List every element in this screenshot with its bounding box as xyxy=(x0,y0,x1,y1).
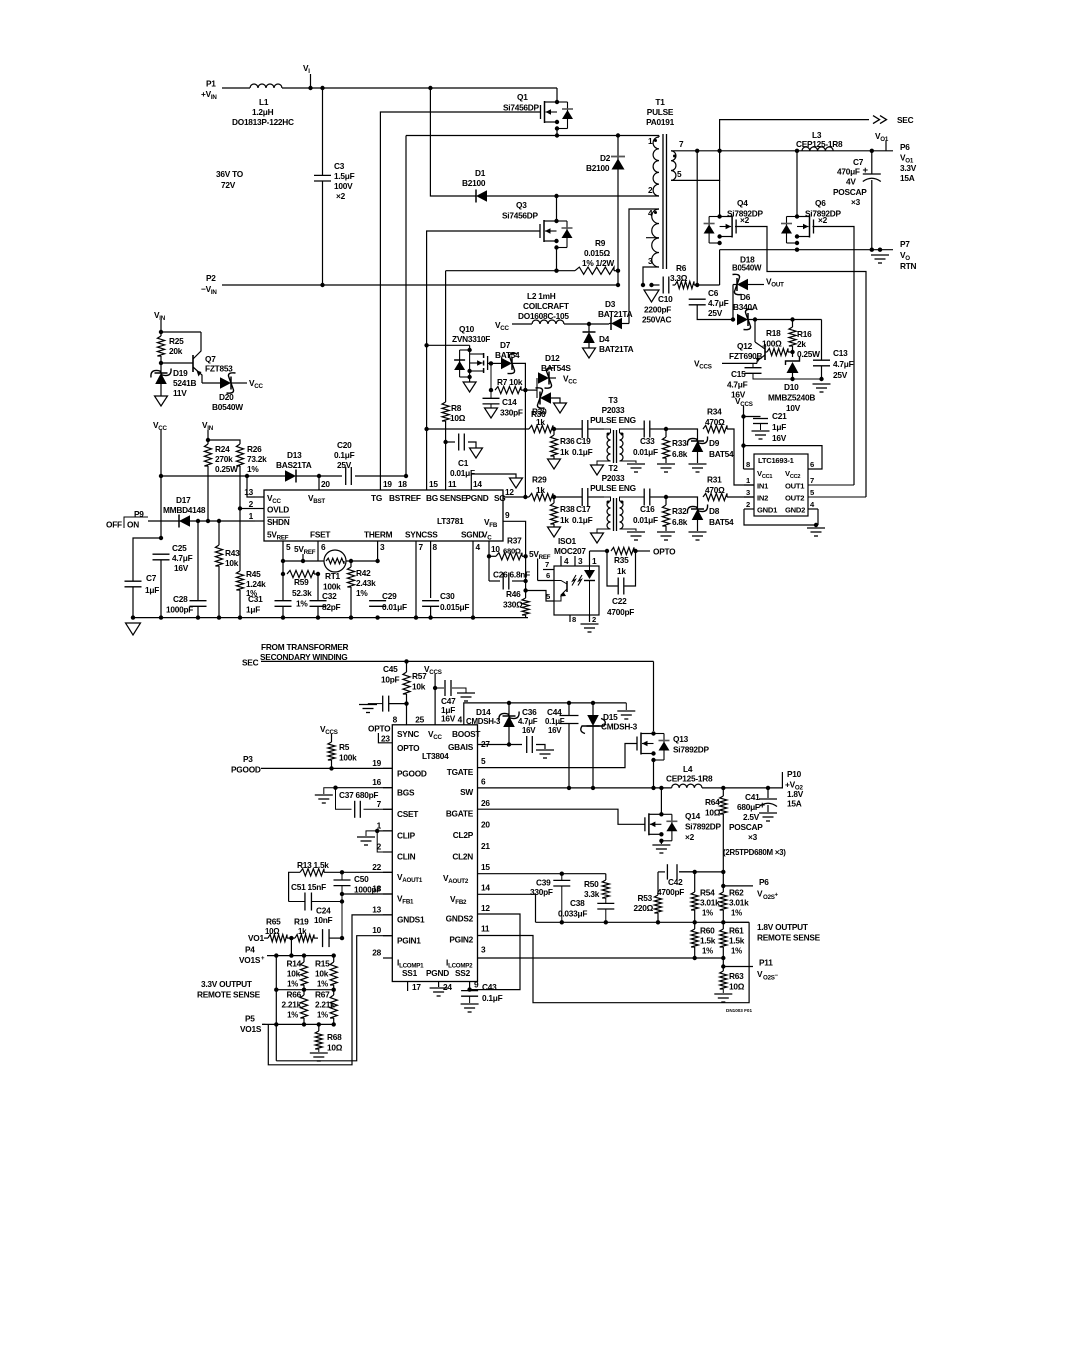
svg-text:16V: 16V xyxy=(174,563,189,573)
svg-text:LT3804: LT3804 xyxy=(422,751,449,761)
svg-text:C15: C15 xyxy=(731,369,746,379)
svg-text:270k: 270k xyxy=(215,454,233,464)
capacitor C21 1uF 16V xyxy=(744,411,788,443)
LT3781 left pins xyxy=(244,487,264,521)
svg-text:B2100: B2100 xyxy=(586,163,610,173)
transistor Q14 Si7892DP xyxy=(645,788,722,843)
net SEC bottom xyxy=(242,658,259,668)
svg-text:2: 2 xyxy=(249,499,254,509)
svg-text:CEP125-1R8: CEP125-1R8 xyxy=(796,139,843,149)
svg-text:C7: C7 xyxy=(146,573,157,583)
pin SS2 / C43 xyxy=(461,980,503,1013)
svg-text:VO1: VO1 xyxy=(248,933,264,943)
svg-text:4: 4 xyxy=(458,715,463,725)
resistor R38 1k xyxy=(548,497,576,537)
svg-text:C1: C1 xyxy=(458,458,469,468)
svg-text:470Ω: 470Ω xyxy=(705,417,725,427)
svg-text:4.7μF: 4.7μF xyxy=(518,717,538,726)
pin SS1 xyxy=(408,982,422,993)
svg-text:12: 12 xyxy=(505,487,514,497)
svg-text:REMOTE SENSE: REMOTE SENSE xyxy=(197,990,261,1000)
svg-text:BAT21TA: BAT21TA xyxy=(599,344,634,354)
svg-text:PGND: PGND xyxy=(426,968,449,978)
resistor R24 270k xyxy=(204,440,238,521)
svg-text:R63: R63 xyxy=(729,971,744,981)
svg-text:SHDN: SHDN xyxy=(267,517,290,527)
zener D19 5241B 11V xyxy=(151,363,197,406)
diode D14 CMDSH-3 xyxy=(466,703,519,747)
svg-text:P3: P3 xyxy=(243,754,253,764)
svg-text:R18: R18 xyxy=(766,328,781,338)
svg-text:1%: 1% xyxy=(287,980,298,989)
svg-text:0.1μF: 0.1μF xyxy=(545,717,565,726)
svg-text:P10: P10 xyxy=(787,769,802,779)
svg-text:R24: R24 xyxy=(215,444,230,454)
svg-text:C3: C3 xyxy=(334,161,345,171)
svg-text:D8: D8 xyxy=(709,506,720,516)
wire P4 row xyxy=(267,938,336,958)
svg-text:220Ω: 220Ω xyxy=(634,903,654,913)
svg-text:0.015Ω: 0.015Ω xyxy=(584,248,611,258)
svg-text:52.3k: 52.3k xyxy=(292,588,312,598)
svg-text:C6: C6 xyxy=(708,288,719,298)
svg-text:R59: R59 xyxy=(294,577,309,587)
earth gnd Q14 xyxy=(652,841,670,853)
svg-text:D13: D13 xyxy=(287,450,302,460)
svg-text:CLIN: CLIN xyxy=(397,852,416,862)
resistor R5 100k xyxy=(328,742,357,771)
svg-text:4.7μF: 4.7μF xyxy=(172,553,193,563)
svg-text:0.01μF: 0.01μF xyxy=(382,602,407,612)
net VO1 row xyxy=(248,933,268,943)
svg-text:P11: P11 xyxy=(759,958,773,968)
svg-text:R45: R45 xyxy=(246,569,261,579)
svg-text:17: 17 xyxy=(412,982,421,992)
net VCC column xyxy=(153,420,168,540)
resistor R36 1k xyxy=(548,429,576,469)
svg-text:R34: R34 xyxy=(707,407,722,417)
svg-text:4700pF: 4700pF xyxy=(607,607,634,617)
svg-text:R7 10k: R7 10k xyxy=(497,377,523,387)
svg-text:THERM: THERM xyxy=(364,530,393,540)
svg-text:10Ω: 10Ω xyxy=(450,413,466,423)
svg-text:0.01μF: 0.01μF xyxy=(633,515,658,525)
svg-text:+: + xyxy=(863,165,869,176)
wire VC column xyxy=(523,556,527,598)
resistor R65 10ohm xyxy=(268,935,294,942)
svg-text:PGOOD: PGOOD xyxy=(397,769,427,779)
svg-text:C25: C25 xyxy=(172,543,187,553)
connector P5 VO1S- xyxy=(240,1014,266,1035)
svg-text:8: 8 xyxy=(433,542,438,552)
svg-text:B340A: B340A xyxy=(733,302,758,312)
svg-text:BAT54S: BAT54S xyxy=(541,363,571,373)
svg-text:D3: D3 xyxy=(605,299,616,309)
svg-text:10k: 10k xyxy=(315,969,329,979)
svg-text:1%: 1% xyxy=(247,464,259,474)
svg-text:1%: 1% xyxy=(702,947,713,956)
LT3781 right pins xyxy=(484,495,528,557)
svg-text:GBAIS: GBAIS xyxy=(448,742,474,752)
svg-text:MOC207: MOC207 xyxy=(554,546,586,556)
svg-text:10k: 10k xyxy=(412,682,426,692)
svg-text:P5: P5 xyxy=(245,1014,255,1024)
svg-text:470μF: 470μF xyxy=(837,167,860,177)
diode D18 B0540W xyxy=(733,274,785,319)
svg-text:0.25W: 0.25W xyxy=(215,464,238,474)
svg-text:R32: R32 xyxy=(672,506,687,516)
inductor L4 CEP125-1R8 xyxy=(666,764,783,790)
capacitor C16 0.01uF xyxy=(633,489,668,526)
wire pin13 VCC xyxy=(247,476,255,497)
svg-text:BOOST: BOOST xyxy=(452,729,480,739)
wire C50 col to C24 xyxy=(340,902,344,941)
ground rail xyxy=(131,615,475,619)
svg-text:IN1: IN1 xyxy=(757,482,769,491)
svg-text:P1: P1 xyxy=(206,79,216,89)
svg-text:8: 8 xyxy=(393,715,398,725)
wire SEC tap xyxy=(720,120,869,151)
svg-text:DN1003 F01: DN1003 F01 xyxy=(726,1008,752,1013)
resistor R30 1k xyxy=(529,409,556,433)
svg-text:28: 28 xyxy=(372,948,381,958)
snubber column xyxy=(696,151,698,285)
svg-text:C24: C24 xyxy=(316,906,331,916)
svg-text:R30: R30 xyxy=(532,407,547,417)
svg-text:1k: 1k xyxy=(536,417,545,427)
diode D3 BAT21TA xyxy=(598,299,633,330)
svg-text:22: 22 xyxy=(372,862,381,872)
svg-text:3.01k: 3.01k xyxy=(700,898,720,908)
svg-text:MMBZ5240B: MMBZ5240B xyxy=(768,393,815,403)
resistor R66 2.21k xyxy=(281,990,307,1027)
svg-text:82pF: 82pF xyxy=(322,602,341,612)
svg-text:Q10: Q10 xyxy=(459,324,475,334)
LT3781 left pin names xyxy=(267,493,290,542)
svg-text:SYNC: SYNC xyxy=(405,530,427,540)
svg-text:R6: R6 xyxy=(676,263,687,273)
svg-text:7: 7 xyxy=(377,799,382,809)
svg-text:POSCAP: POSCAP xyxy=(833,187,867,197)
wire SEC line xyxy=(261,659,654,663)
svg-text:×2: ×2 xyxy=(740,215,750,225)
svg-text:REMOTE SENSE: REMOTE SENSE xyxy=(757,933,821,943)
svg-text:1000pF: 1000pF xyxy=(166,605,193,615)
LT3804 top names xyxy=(397,729,480,741)
capacitor C20 0.1uF 25V xyxy=(319,440,408,485)
resistor R50 3.3k xyxy=(584,874,609,903)
wire Q1 source to rail2 xyxy=(555,129,559,138)
svg-text:CL2N: CL2N xyxy=(452,852,473,862)
svg-text:1k: 1k xyxy=(560,515,569,525)
CLIP/CLIN gnd xyxy=(357,829,392,852)
net VIN divider xyxy=(202,420,214,442)
T1 primary winding 1-2 xyxy=(648,136,659,197)
svg-text:19: 19 xyxy=(372,758,381,768)
svg-text:10k: 10k xyxy=(225,558,239,568)
net VCCS C47 xyxy=(424,664,442,725)
svg-text:1% 1/2W: 1% 1/2W xyxy=(582,258,614,268)
svg-text:P6: P6 xyxy=(759,877,769,887)
label 36V TO 72V xyxy=(216,169,244,190)
svg-text:R8: R8 xyxy=(451,403,462,413)
T1 aux winding 4-3 xyxy=(646,208,659,267)
label 1.8V remote sense xyxy=(757,922,821,943)
svg-text:1%: 1% xyxy=(287,1011,298,1020)
svg-text:Q6: Q6 xyxy=(815,198,826,208)
net VO1 tick xyxy=(875,131,889,151)
svg-text:R16: R16 xyxy=(797,329,812,339)
svg-text:C33: C33 xyxy=(640,436,655,446)
wire T1 pin4 to D3 xyxy=(629,209,659,324)
resistor R15 10k xyxy=(315,956,337,992)
wire GNDS1 loop xyxy=(268,915,392,1065)
svg-text:16V: 16V xyxy=(548,726,562,735)
svg-text:C50: C50 xyxy=(354,874,369,884)
svg-text:L4: L4 xyxy=(683,764,693,774)
capacitor C17 0.1uF xyxy=(554,488,604,525)
resistor R67 2.21k xyxy=(315,990,337,1027)
svg-text:PA0191: PA0191 xyxy=(646,117,675,127)
svg-text:BGATE: BGATE xyxy=(446,809,474,819)
svg-text:25V: 25V xyxy=(708,308,723,318)
svg-text:C21: C21 xyxy=(772,411,787,421)
svg-text:×3: ×3 xyxy=(851,197,861,207)
svg-text:16V: 16V xyxy=(522,726,536,735)
svg-text:7: 7 xyxy=(679,139,684,149)
svg-text:SEC: SEC xyxy=(897,115,914,125)
wire mid sense row xyxy=(274,953,334,1060)
svg-text:R15: R15 xyxy=(315,959,330,969)
svg-text:R33: R33 xyxy=(672,438,687,448)
R30 label xyxy=(532,407,547,428)
svg-text:TG: TG xyxy=(371,493,382,503)
svg-text:8: 8 xyxy=(572,615,576,624)
label 3.3V remote sense xyxy=(197,979,261,1000)
svg-text:16: 16 xyxy=(372,777,381,787)
svg-text:CLIP: CLIP xyxy=(397,831,416,841)
svg-text:1%: 1% xyxy=(317,1011,328,1020)
svg-text:VO1S: VO1S xyxy=(239,955,261,965)
tag DN1003 xyxy=(726,1008,752,1013)
svg-text:IN2: IN2 xyxy=(757,494,768,503)
svg-text:O2S: O2S xyxy=(763,894,775,901)
resistor R34 470ohm xyxy=(703,407,754,486)
connector P10 1.8V out xyxy=(785,769,804,809)
svg-text:1.2μH: 1.2μH xyxy=(252,107,274,117)
wire GBIAS row xyxy=(477,744,479,746)
svg-text:R9: R9 xyxy=(595,238,606,248)
svg-text:100Ω: 100Ω xyxy=(762,339,782,349)
svg-text:470Ω: 470Ω xyxy=(705,485,725,495)
svg-text:Q14: Q14 xyxy=(685,811,701,821)
diode D4 BAT21TA xyxy=(583,324,634,358)
svg-text:+: + xyxy=(760,800,766,811)
svg-text:SS: SS xyxy=(427,530,438,540)
svg-text:GNDS1: GNDS1 xyxy=(397,915,425,925)
resistor R43 10k xyxy=(215,521,240,618)
svg-text:C20: C20 xyxy=(337,440,352,450)
resistor R14 10k xyxy=(287,956,308,992)
diode D13 BAS21TA xyxy=(276,450,321,483)
svg-text:FZT853: FZT853 xyxy=(205,364,233,374)
capacitor C50 1000pF xyxy=(334,872,382,896)
diode D12 BAT54S xyxy=(525,353,577,413)
svg-text:3: 3 xyxy=(648,256,653,266)
svg-text:RTN: RTN xyxy=(900,261,917,271)
op-amp U2 LTC1693-1 box xyxy=(754,454,808,516)
svg-text:6.8k: 6.8k xyxy=(672,449,688,459)
svg-text:C14: C14 xyxy=(502,397,517,407)
wire VFB2 xyxy=(478,894,536,922)
earth gnd P7 xyxy=(871,255,889,263)
op-amp U1 LT3781 box xyxy=(264,490,503,541)
svg-text:C31: C31 xyxy=(248,594,263,604)
svg-text:R38: R38 xyxy=(560,504,575,514)
capacitor C51 15nF xyxy=(289,882,345,911)
svg-text:R62: R62 xyxy=(729,888,744,898)
resistor R35 1k xyxy=(611,547,650,576)
labels D18 xyxy=(732,255,762,273)
wire SEC down to Q13 xyxy=(653,661,655,731)
svg-text:0.1μF: 0.1μF xyxy=(572,515,593,525)
svg-text:330pF: 330pF xyxy=(530,887,553,897)
wire TGATE to Q13 gate xyxy=(478,744,637,768)
svg-text:PGIN2: PGIN2 xyxy=(449,935,473,945)
svg-text:1μF: 1μF xyxy=(246,605,260,615)
svg-text:P2: P2 xyxy=(206,273,216,283)
svg-text:R37: R37 xyxy=(507,536,522,546)
diode D2 B2100 xyxy=(586,136,625,286)
connector P4 VO1S+ xyxy=(239,945,265,966)
capacitor C42 4700pF xyxy=(657,864,695,897)
svg-text:MMBD4148: MMBD4148 xyxy=(163,505,206,515)
chassis gnd at C10 xyxy=(644,283,659,302)
svg-text:R60: R60 xyxy=(700,926,715,936)
capacitor C6 4.7uF 25V xyxy=(689,288,733,320)
svg-text:TGATE: TGATE xyxy=(447,767,474,777)
resistor R64 10ohm xyxy=(705,788,727,872)
svg-text:D17: D17 xyxy=(176,495,191,505)
svg-text:250VAC: 250VAC xyxy=(642,315,672,325)
svg-text:15A: 15A xyxy=(787,799,802,809)
net VIN tick xyxy=(154,310,166,334)
LT3804 left pin rows xyxy=(372,758,392,958)
svg-text:FZT690B: FZT690B xyxy=(729,351,763,361)
svg-text:20: 20 xyxy=(481,820,490,830)
svg-text:C42: C42 xyxy=(668,877,683,887)
svg-text:100k: 100k xyxy=(339,753,357,763)
svg-text:1%: 1% xyxy=(731,909,742,918)
diode D20 B0540W xyxy=(202,373,264,412)
connector P1 +VIN xyxy=(201,79,217,102)
wire SG drive row xyxy=(525,496,529,498)
svg-text:0.1μF: 0.1μF xyxy=(334,450,355,460)
svg-text:Q1: Q1 xyxy=(517,92,528,102)
svg-text:Si7892DP: Si7892DP xyxy=(673,745,710,755)
capacitor C10 2200pF xyxy=(642,277,675,325)
ISO1 pin stubs xyxy=(543,551,599,632)
svg-text:D4: D4 xyxy=(599,334,610,344)
svg-text:26: 26 xyxy=(481,798,490,808)
wire ILCOMP2 row xyxy=(478,957,724,959)
chassis gnd Q10 xyxy=(463,377,476,392)
svg-text:24: 24 xyxy=(443,982,452,992)
svg-text:12: 12 xyxy=(481,903,490,913)
svg-text:1μF: 1μF xyxy=(772,422,786,432)
svg-text:10Ω: 10Ω xyxy=(265,927,279,936)
resistor R18 100ohm xyxy=(762,328,795,356)
svg-text:PGIN1: PGIN1 xyxy=(397,936,421,946)
earth gnd boost xyxy=(617,703,635,719)
svg-text:330pF: 330pF xyxy=(500,408,523,418)
resistor R60 1.5k xyxy=(691,922,716,960)
svg-text:4700pF: 4700pF xyxy=(657,887,684,897)
svg-text:C19: C19 xyxy=(576,436,591,446)
svg-text:(2R5TPD680M ×3): (2R5TPD680M ×3) xyxy=(723,848,786,857)
svg-text:PULSE: PULSE xyxy=(647,107,674,117)
svg-text:OPTO: OPTO xyxy=(397,743,420,753)
svg-text:15: 15 xyxy=(481,862,490,872)
T3 secondary gnd xyxy=(620,461,646,472)
wire VAOUT2 row xyxy=(478,872,606,876)
svg-text:DO1813P-122HC: DO1813P-122HC xyxy=(232,117,294,127)
capacitor C31 1uF xyxy=(246,574,292,618)
svg-text:PGND: PGND xyxy=(466,493,489,503)
svg-text:OPTO: OPTO xyxy=(653,547,676,557)
svg-text:DO1608C-105: DO1608C-105 xyxy=(518,311,569,321)
svg-text:0.01μF: 0.01μF xyxy=(633,447,658,457)
svg-text:11V: 11V xyxy=(173,388,187,398)
zener D10 MMBZ5240B xyxy=(768,352,815,413)
svg-text:R36: R36 xyxy=(560,436,575,446)
svg-text:OUT2: OUT2 xyxy=(785,494,804,503)
capacitor C39 330pF xyxy=(530,874,570,925)
T2 primary gnd xyxy=(591,529,611,543)
resistor R7 10k xyxy=(489,363,528,393)
svg-text:0.015μF: 0.015μF xyxy=(440,602,469,612)
wire BG to Q3 gate xyxy=(427,231,540,476)
svg-text:D19: D19 xyxy=(173,368,188,378)
PGND chassis gnd xyxy=(471,474,522,497)
svg-text:C30: C30 xyxy=(440,591,455,601)
capacitor C19 0.1uF xyxy=(554,420,604,457)
svg-text:3.3Ω: 3.3Ω xyxy=(670,273,688,283)
wire sense loop right xyxy=(723,921,749,923)
svg-text:CL2P: CL2P xyxy=(453,830,474,840)
resistor R32 6.8k xyxy=(657,497,688,540)
svg-text:5241B: 5241B xyxy=(173,378,196,388)
svg-text:2.21k: 2.21k xyxy=(315,1000,335,1010)
resistor R46 330ohm xyxy=(473,589,529,618)
T1 core xyxy=(663,134,667,269)
svg-text:72V: 72V xyxy=(221,180,236,190)
resistor R19 1k xyxy=(291,917,318,942)
connector P11 VO2S- xyxy=(721,958,778,982)
R65 value xyxy=(265,917,281,937)
svg-text:SENSE: SENSE xyxy=(440,493,468,503)
connector P2 -VIN xyxy=(201,273,217,296)
svg-text:20: 20 xyxy=(321,479,330,489)
T3 primary gnd xyxy=(591,461,611,475)
svg-text:SECONDARY WINDING: SECONDARY WINDING xyxy=(260,652,347,662)
LT3804 right pin numbers xyxy=(481,739,490,955)
LT3781 bottom pin names xyxy=(310,530,492,542)
wire VFB1 xyxy=(342,893,392,895)
svg-text:P2033: P2033 xyxy=(602,405,625,415)
svg-text:B0540W: B0540W xyxy=(212,402,243,412)
svg-text:R53: R53 xyxy=(638,893,653,903)
